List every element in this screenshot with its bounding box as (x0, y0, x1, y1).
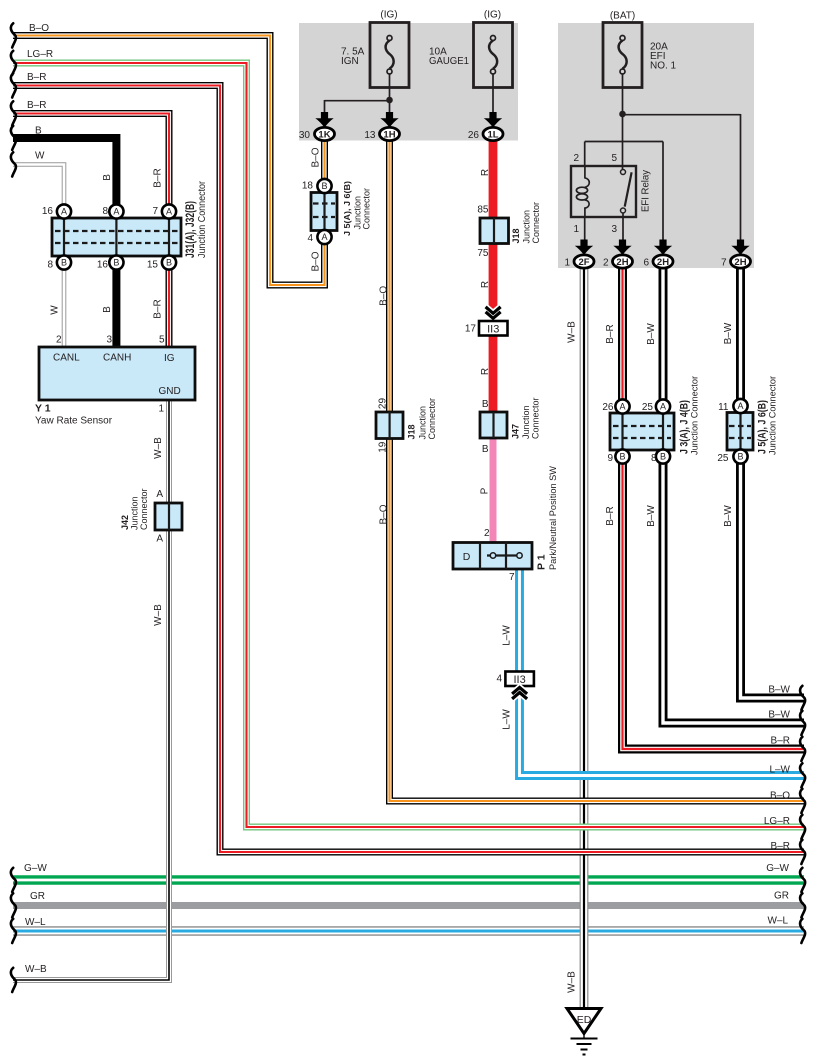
svg-text:J42: J42 (120, 515, 130, 530)
svg-text:B–W: B–W (646, 323, 657, 345)
wire-break squiggle right G-W (800, 868, 805, 892)
wire-break squiggle left G-W (11, 868, 16, 892)
svg-text:LG–R: LG–R (764, 816, 790, 827)
svg-text:CANH: CANH (103, 353, 131, 364)
svg-text:B–R: B–R (153, 168, 164, 187)
svg-text:17: 17 (465, 324, 477, 335)
svg-text:85: 85 (477, 205, 489, 216)
svg-text:11: 11 (718, 402, 729, 413)
wire B-R from connector 2H via J3/J4 to right edge exit (623, 267, 805, 749)
svg-text:3: 3 (106, 335, 112, 346)
junction connector J31(A),J32(B) (52, 218, 181, 256)
svg-text:B–R: B–R (771, 736, 790, 747)
junction dot below fuse IGN (386, 97, 393, 104)
svg-text:Connector: Connector (531, 202, 541, 244)
svg-text:B–R: B–R (27, 72, 46, 83)
relay EFI Relay box (571, 166, 636, 217)
wire fuse GAUGE1 to connector 1L (492, 75, 494, 119)
svg-text:B–O: B–O (378, 504, 389, 524)
wire-break squiggle left W-L (11, 919, 16, 943)
svg-text:26: 26 (468, 130, 480, 141)
svg-text:B–R: B–R (771, 841, 790, 852)
svg-text:2: 2 (573, 153, 579, 164)
wire-break squiggle right B-W 1 (800, 686, 805, 710)
wire-break squiggle right B-R 1 (800, 737, 805, 761)
svg-text:1L: 1L (487, 130, 498, 141)
wire-break squiggle right B-O (800, 789, 805, 813)
wire B-R from J31 pin 15B to Y1 IG (166, 258, 173, 347)
wire-break squiggle left W (11, 152, 16, 176)
arrow into 1H (380, 112, 398, 128)
svg-text:R: R (480, 281, 491, 288)
svg-text:B–R: B–R (605, 324, 616, 343)
svg-text:75: 75 (477, 248, 489, 259)
wire B-O from connector 1H via J18 to right edge exit (390, 141, 805, 801)
svg-text:2: 2 (484, 528, 490, 539)
svg-text:5: 5 (159, 335, 165, 346)
wire B-O from J5/J6 pin 18B up to connector 1K (321, 141, 328, 181)
svg-text:Y 1: Y 1 (35, 403, 51, 415)
svg-text:EFI Relay: EFI Relay (640, 170, 651, 212)
svg-text:9: 9 (607, 453, 613, 464)
svg-text:15: 15 (147, 260, 159, 271)
svg-text:ED: ED (577, 1014, 592, 1026)
svg-text:LG–R: LG–R (27, 49, 53, 60)
svg-text:1: 1 (573, 224, 579, 235)
svg-text:J31(A), J32(B): J31(A), J32(B) (183, 201, 197, 258)
connector oval 2H c (731, 255, 751, 268)
svg-text:7: 7 (721, 258, 727, 269)
pin circle J3/J4 9B (615, 449, 629, 463)
pin circle J5/J6 right 25B (733, 449, 747, 463)
svg-text:A: A (156, 534, 163, 545)
svg-text:1: 1 (564, 258, 570, 269)
svg-text:W–L: W–L (25, 917, 46, 928)
wire LG-R from left edge down to right edge exit (13, 63, 804, 827)
wire-break squiggle right GR (800, 893, 805, 917)
wire branch to connector 7 2H (623, 114, 741, 246)
svg-text:J18: J18 (511, 228, 521, 243)
svg-text:D: D (463, 551, 471, 563)
svg-text:B: B (113, 258, 119, 268)
wire R from connector 1L via J18 to J47 (489, 141, 498, 413)
svg-text:B–R: B–R (605, 506, 616, 525)
wire B-O from left edge looping to junction J5/J6 pin 4A (13, 36, 325, 286)
junction connector J5(A),J6(B) right (727, 413, 753, 451)
wire W-L horizontal (13, 926, 804, 935)
svg-text:Connector: Connector (139, 488, 149, 530)
wire W-B from Y1 GND via J42 to left edge (13, 400, 169, 980)
svg-text:G–W: G–W (24, 863, 47, 874)
junction connector J3(A),J4(B) (610, 413, 674, 450)
svg-text:J47: J47 (511, 424, 521, 439)
svg-text:W–B: W–B (153, 437, 164, 459)
svg-text:L–W: L–W (502, 709, 513, 730)
svg-text:25: 25 (642, 402, 654, 413)
connector oval 2H a (613, 255, 633, 268)
svg-text:A: A (321, 232, 327, 242)
wire-break squiggle left B-R 1 (11, 73, 16, 97)
wire-break squiggle left B-R 2 (11, 101, 16, 125)
wire junction dot to relay pin 5 (622, 114, 624, 169)
wire-break squiggle left GR (11, 893, 16, 917)
svg-text:7: 7 (509, 572, 515, 583)
junction connector J18 on R wire (480, 218, 509, 244)
svg-text:P: P (480, 487, 491, 494)
svg-text:W: W (50, 305, 61, 315)
svg-text:B: B (61, 258, 67, 268)
pin circle J31 15B (162, 255, 176, 269)
connector oval 1K (315, 127, 335, 140)
svg-text:(IG): (IG) (484, 10, 501, 21)
wire G-W horizontal (13, 875, 804, 885)
wire-break squiggle left W-B (11, 968, 16, 992)
svg-text:B: B (660, 452, 666, 462)
svg-text:B: B (166, 258, 172, 268)
svg-text:1H: 1H (383, 130, 395, 141)
svg-text:25: 25 (717, 453, 729, 464)
wire W from J31 pin 8B to Y1 CANL (62, 258, 67, 347)
wire GR horizontal (13, 902, 804, 909)
svg-text:L–W: L–W (769, 765, 790, 776)
svg-text:R: R (480, 368, 491, 375)
svg-text:2H: 2H (734, 257, 746, 268)
svg-text:A: A (156, 489, 163, 500)
fuse 20A EFI NO.1 (603, 23, 642, 88)
pin circle J31 16A (57, 204, 71, 218)
svg-text:B–W: B–W (723, 505, 734, 527)
svg-text:B–R: B–R (27, 100, 46, 111)
svg-text:Connector: Connector (427, 398, 437, 440)
wire-break squiggle right B-R 2 (800, 840, 805, 864)
svg-text:A: A (61, 207, 67, 217)
wire-break squiggle left B-O (11, 23, 16, 47)
junction connector J18 on B-O wire (376, 412, 403, 439)
svg-text:Junction: Junction (521, 405, 531, 439)
svg-text:6: 6 (643, 258, 649, 269)
svg-text:19: 19 (377, 441, 388, 453)
svg-text:B–R: B–R (152, 299, 163, 318)
svg-text:B–W: B–W (768, 685, 790, 696)
wire B-W from connector 2H via J3/J4 to right edge exit (663, 267, 804, 723)
svg-text:Junction Connector: Junction Connector (197, 180, 208, 258)
connector oval 2H b (653, 255, 673, 268)
svg-text:4: 4 (496, 674, 502, 685)
junction connector J42 (155, 503, 182, 530)
svg-text:B: B (619, 452, 625, 462)
battery relay block background (558, 23, 754, 268)
svg-text:B: B (102, 174, 113, 181)
fuse 7.5A IGN (370, 23, 409, 88)
wire relay pin 3 to connector 2 2H (622, 213, 624, 246)
double chevron marker on R wire (486, 307, 501, 318)
svg-text:J18: J18 (407, 424, 417, 439)
connector oval 1H (380, 127, 400, 140)
pin circle J5/J6 right 11A (733, 399, 747, 413)
wire-break squiggle right W-L (800, 919, 805, 943)
component P1 Park/Neutral Position SW box (453, 543, 532, 570)
svg-text:A: A (166, 207, 172, 217)
svg-text:B: B (737, 452, 743, 462)
arrow into 2H b (654, 240, 672, 256)
pin circle J3/J4 26A (615, 399, 629, 413)
connector box II3 4 (505, 672, 534, 687)
svg-text:R: R (480, 169, 491, 176)
wire B-R from left edge to J31 pin 7A (13, 114, 169, 213)
wire fuse EFI to junction dot (622, 75, 624, 115)
svg-text:IGN: IGN (341, 56, 359, 67)
svg-text:Park/Neutral Position SW: Park/Neutral Position SW (548, 466, 559, 570)
svg-text:B–O: B–O (770, 791, 790, 802)
svg-text:13: 13 (364, 130, 376, 141)
pin circle J31 7A (162, 204, 176, 218)
svg-text:A: A (660, 402, 666, 412)
arrow into 1L (484, 112, 502, 128)
svg-text:4: 4 (307, 233, 313, 244)
fuse 10A GAUGE1 (474, 23, 513, 88)
svg-text:1K: 1K (318, 130, 330, 141)
wire P from J47 to P1 pin 2 (490, 437, 497, 544)
svg-text:B: B (321, 181, 327, 191)
svg-text:GAUGE1: GAUGE1 (429, 56, 469, 67)
svg-text:16: 16 (97, 260, 109, 271)
wire relay pin 1 to connector 1 2F (584, 217, 586, 246)
pin circle J31 8A (109, 204, 123, 218)
svg-text:B–O: B–O (29, 23, 49, 34)
ground symbol ED (567, 1009, 601, 1055)
svg-text:Junction: Junction (522, 210, 532, 244)
arrow into 2H a (613, 240, 631, 256)
svg-text:B: B (482, 444, 489, 455)
wire-break squiggle right B-W 2 (800, 711, 805, 735)
wire branch to connector 6 2H (662, 142, 664, 247)
wire W from left edge to J31 pin 16A (13, 165, 64, 213)
junction connector J47 (480, 412, 507, 438)
connector oval 1L (483, 127, 503, 140)
svg-text:P 1: P 1 (536, 554, 548, 570)
wire junction dot to connector 1H (389, 100, 391, 118)
svg-text:3: 3 (611, 224, 617, 235)
svg-text:W–B: W–B (567, 321, 578, 343)
wire W-B from connector 2F to ground ED (580, 267, 589, 1009)
svg-text:(BAT): (BAT) (610, 11, 635, 22)
svg-text:B–O: B–O (378, 286, 389, 306)
svg-text:W: W (35, 151, 45, 162)
svg-text:Junction: Junction (418, 406, 428, 440)
svg-text:16: 16 (42, 206, 54, 217)
svg-text:8: 8 (651, 453, 657, 464)
wire-break squiggle left B (11, 126, 16, 150)
svg-text:B: B (482, 399, 489, 410)
svg-text:W–B: W–B (153, 604, 164, 626)
svg-text:J 5(A), J 6(B): J 5(A), J 6(B) (342, 181, 352, 236)
svg-text:IG: IG (164, 353, 175, 364)
connector box II3 17 (479, 321, 508, 336)
svg-text:II3: II3 (487, 323, 499, 335)
wire L-W from P1 pin 7 via II3 to right edge exit (520, 569, 805, 776)
wire fuse IGN output to junction dot (389, 75, 391, 101)
wire-break squiggle right L-W (800, 763, 805, 787)
junction connector J5(A),J6(B) top (311, 193, 337, 231)
svg-text:B–W: B–W (723, 322, 734, 344)
svg-text:Connector: Connector (362, 188, 372, 230)
arrow into 2H c (731, 240, 749, 256)
svg-text:Junction Connector: Junction Connector (768, 376, 778, 455)
svg-text:W–B: W–B (567, 971, 578, 993)
svg-text:CANL: CANL (53, 353, 80, 364)
svg-text:GND: GND (159, 386, 181, 397)
svg-text:26: 26 (602, 402, 614, 413)
pin circle J5/J6 4A (317, 230, 331, 244)
svg-text:29: 29 (377, 398, 388, 410)
svg-text:30: 30 (299, 130, 311, 141)
svg-text:B: B (35, 126, 42, 137)
svg-text:GR: GR (774, 891, 789, 902)
svg-text:8: 8 (47, 260, 53, 271)
svg-text:Yaw Rate Sensor: Yaw Rate Sensor (35, 416, 113, 427)
wire B from left edge to J31 pin 8A (13, 138, 116, 212)
svg-text:Junction Connector: Junction Connector (690, 376, 700, 455)
wire B-R from left edge down to right edge exit (13, 86, 804, 853)
pin circle J3/J4 8B (656, 449, 670, 463)
double chevron marker on L-W wire (512, 688, 527, 699)
svg-text:18: 18 (302, 181, 314, 192)
svg-text:8: 8 (102, 206, 108, 217)
svg-text:1: 1 (158, 404, 164, 415)
svg-text:Junction: Junction (130, 496, 140, 530)
wire B from J31 pin 16B to Y1 CANH (112, 258, 120, 347)
wire relay pin 2 branch (585, 142, 663, 167)
pin circle J31 8B (57, 255, 71, 269)
arrow into 2F (575, 240, 593, 256)
component Y1 Yaw Rate Sensor box (39, 347, 195, 400)
svg-text:A: A (113, 207, 119, 217)
pin circle J3/J4 25A (656, 399, 670, 413)
svg-text:GR: GR (30, 891, 45, 902)
svg-text:A: A (619, 402, 625, 412)
svg-text:G–W: G–W (766, 863, 789, 874)
svg-text:2H: 2H (616, 257, 628, 268)
wire branch to connector 1K (325, 100, 390, 118)
svg-text:W–B: W–B (25, 964, 47, 975)
svg-text:5: 5 (611, 153, 617, 164)
arrow into 1K (315, 112, 333, 128)
svg-text:2: 2 (56, 335, 62, 346)
svg-text:B–W: B–W (768, 710, 790, 721)
junction dot below fuse EFI (619, 111, 626, 118)
ignition relay block background (299, 23, 518, 141)
svg-text:Connector: Connector (531, 397, 541, 439)
svg-text:B–O: B–O (310, 147, 321, 167)
wire-break squiggle right LG-R (800, 815, 805, 839)
svg-text:(IG): (IG) (380, 10, 397, 21)
wire-break squiggle left LG-R (11, 51, 16, 75)
svg-text:B–W: B–W (646, 505, 657, 527)
svg-text:7: 7 (152, 206, 158, 217)
wire B-W from connector 2H via J5/J6 to right edge exit (741, 267, 805, 698)
svg-text:2F: 2F (578, 257, 589, 268)
pin circle J31 16B (109, 255, 123, 269)
connector oval 2F (574, 255, 594, 268)
svg-text:NO. 1: NO. 1 (650, 61, 677, 72)
svg-text:A: A (737, 401, 743, 411)
svg-text:B: B (102, 306, 113, 313)
svg-text:W–L: W–L (767, 916, 788, 927)
svg-text:2H: 2H (657, 257, 669, 268)
pin circle J5/J6 18B (317, 179, 331, 193)
svg-text:B–O: B–O (310, 251, 321, 271)
svg-text:2: 2 (603, 258, 609, 269)
svg-text:L–W: L–W (502, 625, 513, 646)
